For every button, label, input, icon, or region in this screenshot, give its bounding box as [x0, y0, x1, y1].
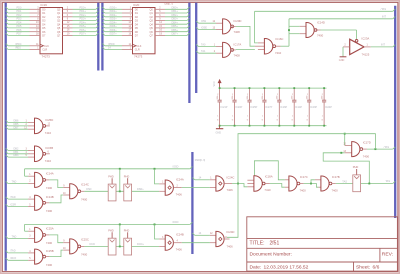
svg-text:IC25C: IC25C	[81, 238, 89, 242]
IC20 pin Q3 wire DB3+	[155, 20, 165, 22]
svg-text:IC20D: IC20D	[234, 19, 242, 23]
bus left PD bus	[5, 3, 7, 271]
svg-text:/PWC: /PWC	[15, 43, 22, 46]
gate IC17B 7400	[315, 179, 321, 181]
svg-text:1: 1	[162, 182, 164, 184]
svg-text:IC16P: IC16P	[280, 106, 287, 109]
capacitor IC14P 100n	[293, 88, 295, 100]
svg-text:7406: 7406	[227, 245, 234, 249]
wire /DCD to IC24B in1	[155, 224, 160, 239]
node cap IC25P rails	[249, 87, 251, 89]
svg-text:/RES: /RES	[15, 47, 21, 50]
IC19 CLK pin wire /PWC	[6, 44, 8, 46]
IC19 pin Q4 wire	[63, 23, 73, 25]
node TAS tap	[368, 183, 370, 185]
svg-text:7406: 7406	[176, 192, 183, 196]
svg-text:GND: GND	[216, 132, 222, 135]
svg-text:DB3+: DB3+	[172, 18, 179, 21]
svg-text:PD1: PD1	[17, 10, 22, 13]
svg-text:IC14A: IC14A	[46, 171, 54, 175]
node /OSD taps	[119, 168, 121, 170]
svg-text:TAS: TAS	[385, 180, 390, 183]
wire IC23A input from GND	[343, 46, 350, 48]
svg-text:12: 12	[212, 21, 215, 23]
svg-text:/DCD: /DCD	[172, 221, 178, 224]
svg-text:7400: 7400	[300, 189, 307, 193]
wire IC17B out TAS to bus	[332, 183, 336, 185]
IC20 pin Q6 wire DB6+	[155, 31, 165, 33]
svg-text:74273: 74273	[134, 55, 143, 59]
wire VCC rail	[220, 87, 327, 89]
node IC17D out junction	[374, 148, 376, 150]
wire TAD input row2	[6, 236, 8, 238]
svg-text:Q0: Q0	[57, 8, 61, 11]
svg-text:TAD: TAD	[12, 180, 17, 183]
capacitor IC25P 100n	[249, 88, 251, 100]
svg-text:PD3+: PD3+	[80, 18, 87, 21]
wire TAD input row1	[6, 181, 8, 183]
svg-text:/DD1+: /DD1+	[110, 10, 118, 13]
gate IC15B 7410	[6, 148, 8, 150]
svg-text:CLK: CLK	[44, 45, 49, 48]
svg-text:3: 3	[162, 237, 164, 239]
IC20 CLK pin wire /PWD	[102, 44, 104, 46]
svg-text:DB3: DB3	[14, 154, 19, 157]
svg-text:PD1+: PD1+	[80, 10, 87, 13]
svg-text:G: G	[217, 120, 219, 122]
svg-text:IC14B: IC14B	[46, 195, 54, 199]
svg-text:2: 2	[214, 51, 216, 53]
svg-text:7400: 7400	[46, 263, 53, 267]
IC20 pin D1 wire /DD1+	[102, 11, 104, 13]
node cap IC14P rails	[293, 87, 295, 89]
svg-text:7400: 7400	[46, 241, 53, 245]
node feedback join chain	[237, 183, 239, 185]
svg-text:/TAD: /TAD	[10, 250, 16, 253]
svg-text:Q7: Q7	[149, 35, 153, 38]
svg-text:CLR: CLR	[42, 49, 47, 52]
svg-text:Q5: Q5	[57, 27, 61, 30]
svg-text:TA0: TA0	[201, 43, 206, 46]
IC19 pin Q7 wire	[63, 34, 73, 36]
wire IC20D out to IC16C	[232, 25, 236, 27]
wire bus tap to IC24D in1	[192, 233, 194, 235]
node cap IC24P rails	[323, 87, 325, 89]
svg-text:2: 2	[177, 185, 179, 187]
svg-text:2: 2	[277, 94, 278, 96]
svg-text:DSR+: DSR+	[137, 188, 144, 191]
svg-text:Q3: Q3	[57, 20, 61, 23]
node /DCD taps	[119, 223, 121, 225]
svg-text:6/6: 6/6	[373, 264, 380, 270]
svg-text:2: 2	[232, 94, 233, 96]
svg-text:DB7: DB7	[14, 126, 19, 129]
node DCD to /DCD link	[119, 245, 121, 247]
svg-text:PD2+: PD2+	[80, 14, 87, 17]
svg-text:PD6: PD6	[17, 29, 22, 32]
wire IC24A out crossing bus to IC24C	[174, 187, 182, 189]
wire IC17D in2 loop from TAS	[323, 153, 369, 184]
IC19 pin Q1 wire	[63, 12, 73, 14]
svg-text:IC17D: IC17D	[363, 140, 371, 144]
svg-text:/TAD: /TAD	[10, 196, 16, 199]
wire IC16C out INT to bus	[276, 45, 281, 47]
capacitor IC20P 100n	[234, 88, 236, 100]
gate IC25C 7400	[63, 242, 69, 244]
svg-text:PD7: PD7	[17, 33, 22, 36]
node IC14D input junction	[288, 29, 290, 31]
pin header PHD row2 b	[127, 232, 129, 238]
pin header PHD TAS	[356, 169, 358, 175]
svg-text:Q4: Q4	[57, 23, 61, 26]
IC20 pin D5 wire /DD5+	[102, 26, 104, 28]
svg-text:TAS: TAS	[342, 180, 347, 183]
svg-text:TA1: TA1	[201, 50, 206, 53]
IC20 pin Q7 wire DB7+	[155, 34, 165, 36]
svg-text:DB[0..7]: DB[0..7]	[165, 2, 174, 5]
svg-text:IC24C: IC24C	[227, 176, 235, 180]
svg-text:/DD5+: /DD5+	[110, 25, 118, 28]
svg-text:Sheet:: Sheet:	[356, 264, 370, 270]
svg-text:PD3: PD3	[17, 18, 22, 21]
svg-text:IC23A: IC23A	[362, 36, 370, 40]
svg-text:Q4: Q4	[149, 23, 153, 26]
wire IC14B out to IC14C	[45, 202, 49, 204]
IC19 pin Q5 wire	[63, 27, 73, 29]
svg-text:7400: 7400	[81, 197, 88, 201]
svg-text:IC14P: IC14P	[295, 106, 302, 109]
wire /TAD input row1	[6, 197, 8, 199]
svg-text:7410: 7410	[45, 131, 52, 135]
bus PD out	[97, 3, 99, 71]
IC20 pin Q5 wire DB5+	[155, 27, 165, 29]
svg-text:DB6+: DB6+	[172, 29, 179, 32]
gate IC25B 7400	[28, 252, 34, 254]
svg-text:/DD2+: /DD2+	[110, 14, 118, 17]
svg-text:1: 1	[210, 178, 212, 180]
IC19 pin D7 wire PD7	[6, 33, 8, 35]
gate IC17C 7400	[285, 179, 289, 181]
svg-text:IC25A: IC25A	[46, 226, 54, 230]
svg-text:1: 1	[277, 116, 278, 118]
wire IC24B out crossing bus to IC24D	[174, 242, 182, 244]
svg-text:6: 6	[48, 152, 50, 154]
svg-text:IC25D: IC25D	[45, 118, 53, 122]
svg-text:DB4+: DB4+	[172, 21, 179, 24]
IC IC19 74LS273 body	[40, 8, 63, 54]
IC20 pin D0 wire /DD0+	[102, 7, 104, 9]
svg-text:7400: 7400	[363, 155, 370, 159]
svg-text:/TAS: /TAS	[384, 146, 390, 149]
svg-text:Q6: Q6	[57, 31, 61, 34]
IC IC20 74LS273 body	[133, 8, 156, 54]
node cap IC21P rails	[219, 87, 221, 89]
svg-text:IC16C: IC16C	[276, 37, 284, 41]
bus IO right	[195, 3, 197, 93]
wire IC25B out to IC25C	[45, 256, 49, 258]
svg-text:2: 2	[292, 94, 293, 96]
IC20 pin D2 wire /DD2+	[102, 15, 104, 17]
gate IC25A 7400	[28, 230, 34, 232]
svg-text:/TAS: /TAS	[381, 8, 387, 11]
IC19 pin Q3 wire	[63, 20, 73, 22]
svg-text:DB1+: DB1+	[172, 10, 179, 13]
svg-text:/DCO: /DCO	[10, 257, 16, 260]
svg-text:7400: 7400	[46, 186, 53, 190]
node cap IC23P rails	[308, 87, 310, 89]
IC20 pin Q0 wire DB0+	[155, 8, 165, 10]
svg-text:PHD: PHD	[108, 228, 114, 232]
wire /DCO input row2	[6, 258, 8, 260]
wire /CSR input row1	[6, 204, 8, 206]
wire IC14A out to IC14C	[45, 179, 49, 181]
IC19 pin Q6 wire	[63, 31, 73, 33]
supply VCC arrow	[219, 83, 221, 89]
IC20 pin Q1 wire DB1+	[155, 12, 165, 14]
wire IOW to IC20D	[196, 21, 198, 23]
svg-text:PD6+: PD6+	[80, 29, 87, 32]
svg-text:1: 1	[217, 116, 218, 118]
wire IC25A out to IC25C	[45, 234, 49, 236]
svg-text:DB2+: DB2+	[172, 14, 179, 17]
svg-text:/DD4+: /DD4+	[110, 21, 118, 24]
svg-text:DCD+: DCD+	[137, 243, 144, 246]
svg-text:IC24D: IC24D	[227, 230, 235, 234]
svg-text:IC21P: IC21P	[221, 106, 228, 109]
svg-text:1: 1	[214, 44, 216, 46]
wire DCD from IC25C to IC24B	[81, 245, 85, 247]
svg-text:G: G	[306, 120, 308, 122]
svg-text:PD7+: PD7+	[80, 33, 87, 36]
gate IC23A 74125 buffer	[350, 39, 364, 54]
svg-text:/DD3+: /DD3+	[110, 18, 118, 21]
svg-text:INT: INT	[382, 16, 387, 19]
svg-text:IC18A: IC18A	[265, 175, 273, 179]
svg-text:G: G	[247, 120, 249, 122]
IC19 pin Q0 wire	[63, 8, 73, 10]
IC20 pin D6 wire /DD6+	[102, 30, 104, 32]
svg-text:/CSR: /CSR	[10, 203, 16, 206]
svg-text:2: 2	[247, 94, 248, 96]
gate IC14A 7400	[28, 175, 34, 177]
gate IC14D 7400	[300, 25, 306, 27]
svg-text:4: 4	[177, 241, 179, 243]
wire /TAD input row2	[6, 251, 8, 253]
svg-text:7408: 7408	[234, 54, 241, 58]
svg-text:1: 1	[367, 45, 369, 47]
svg-text:IC20: IC20	[133, 3, 140, 7]
svg-text:14: 14	[199, 232, 202, 235]
svg-text:12.03.2019 17.56.52: 12.03.2019 17.56.52	[264, 264, 309, 270]
wire bypass IC18A in1 to IC17C in1	[254, 161, 285, 180]
IC20 pin D7 wire /DD7+	[102, 33, 104, 35]
svg-text:Q1: Q1	[57, 12, 61, 15]
svg-text:PHD: PHD	[353, 165, 359, 169]
svg-text:PD5+: PD5+	[80, 25, 87, 28]
svg-text:7406: 7406	[227, 188, 234, 192]
wire IC23A out INT to bus	[364, 46, 371, 48]
svg-text:PD0+: PD0+	[80, 6, 87, 9]
wire /TAS from bus to IC16C	[393, 9, 395, 11]
IC19 pin D3 wire PD3	[6, 18, 8, 20]
IC20 pin Q4 wire DB4+	[155, 23, 165, 25]
svg-text:PD5: PD5	[17, 25, 22, 28]
bus DD in	[101, 3, 103, 71]
svg-text:1: 1	[292, 116, 293, 118]
svg-text:/DD6+: /DD6+	[110, 29, 118, 32]
svg-text:/DD7+: /DD7+	[110, 33, 118, 36]
svg-text:PHD: PHD	[108, 174, 114, 178]
svg-text:2: 2	[322, 94, 323, 96]
svg-text:IC15B: IC15B	[45, 146, 53, 150]
svg-text:IC24P: IC24P	[325, 106, 332, 109]
IC20 pin D3 wire /DD3+	[102, 18, 104, 20]
svg-text:7400: 7400	[46, 209, 53, 213]
IC20 pin D4 wire /DD4+	[102, 22, 104, 24]
svg-text:1: 1	[232, 116, 233, 118]
svg-text:Q5: Q5	[149, 27, 153, 30]
svg-text:Date:: Date:	[250, 264, 262, 270]
gate IC24B 7406	[159, 238, 165, 240]
wire IC17D in1 from feedback line	[344, 134, 346, 146]
capacitor IC21P 100n	[219, 88, 221, 100]
node cap IC20P rails	[234, 87, 236, 89]
svg-text:TAD: TAD	[12, 235, 17, 238]
IC20 CLR pin wire 14	[102, 47, 104, 49]
wire IOSE to IC20D	[196, 27, 198, 29]
svg-text:DCD: DCD	[90, 243, 96, 246]
svg-text:PHD: PHD	[124, 228, 130, 232]
svg-text:PD2: PD2	[17, 14, 22, 17]
IC19 pin D6 wire PD6	[6, 30, 8, 32]
svg-text:1: 1	[322, 116, 323, 118]
gate IC17D 7400	[345, 144, 352, 146]
svg-text:PD4: PD4	[17, 21, 22, 24]
svg-text:CLR: CLR	[135, 49, 140, 52]
IC19 pin D0 wire PD0	[6, 7, 8, 9]
svg-text:IC24B: IC24B	[176, 232, 184, 236]
ground GND at IC23A	[340, 56, 347, 58]
node cap IC17P rails	[263, 87, 265, 89]
svg-text:VCC: VCC	[213, 81, 216, 86]
svg-text:14: 14	[199, 177, 202, 180]
IC19 pin D4 wire PD4	[6, 22, 8, 24]
wire /DCD feedback line	[25, 223, 190, 225]
svg-text:7410: 7410	[275, 51, 282, 55]
svg-text:IC14D: IC14D	[317, 20, 325, 24]
svg-text:IC24A: IC24A	[176, 177, 184, 181]
IC19 pin D5 wire PD5	[6, 26, 8, 28]
svg-text:Q0: Q0	[149, 8, 153, 11]
svg-text:IC17B: IC17B	[332, 175, 340, 179]
wire IC18A out to IC17C	[265, 183, 270, 185]
svg-text:G: G	[262, 120, 264, 122]
svg-text:7400: 7400	[317, 34, 324, 38]
wire IC24D out stub	[224, 238, 229, 240]
svg-text:14: 14	[108, 47, 111, 50]
capacitor IC24P 100n	[323, 88, 325, 100]
bus right edge	[394, 6, 396, 218]
gate IC24A 7406	[159, 183, 165, 185]
svg-text:2: 2	[217, 94, 218, 96]
IC19 pin D1 wire PD1	[6, 11, 8, 13]
svg-text:IOSE: IOSE	[201, 26, 207, 29]
svg-text:2: 2	[307, 94, 308, 96]
svg-text:1: 1	[247, 116, 248, 118]
svg-text:PD0: PD0	[17, 6, 22, 9]
svg-text:Q1: Q1	[149, 12, 153, 15]
gate IC24C 7406	[210, 179, 216, 181]
svg-text:12: 12	[210, 233, 213, 235]
svg-text:1: 1	[307, 116, 308, 118]
svg-text:13: 13	[212, 27, 215, 29]
svg-text:IC17A: IC17A	[234, 42, 242, 46]
svg-text:7400: 7400	[332, 189, 339, 193]
svg-text:PD4+: PD4+	[80, 21, 87, 24]
pin header PHD row1 b	[127, 178, 129, 184]
svg-text:OSD: OSD	[86, 188, 92, 191]
svg-text:74273: 74273	[42, 55, 51, 59]
gate IC20D 7408	[223, 19, 231, 34]
IC19 pin D2 wire PD2	[6, 15, 8, 17]
ground GND below capacitor rail	[219, 126, 221, 129]
svg-text:IOW: IOW	[201, 20, 207, 23]
svg-text:/PWD: /PWD	[108, 43, 115, 46]
gate IC24D 7406	[210, 234, 216, 236]
svg-text:7406: 7406	[176, 248, 183, 252]
svg-text:IC25B: IC25B	[46, 249, 54, 253]
wire /TAS from IC17D to bus	[363, 148, 367, 150]
svg-text:IC14C: IC14C	[81, 183, 89, 187]
svg-text:DB0+: DB0+	[172, 6, 179, 9]
wire /OSD feedback line	[25, 168, 190, 170]
node cap IC16P rails	[278, 87, 280, 89]
svg-text:INT: INT	[381, 44, 386, 47]
svg-text:12: 12	[48, 124, 51, 126]
svg-text:IC20P: IC20P	[235, 106, 242, 109]
svg-text:/DD0+: /DD0+	[110, 6, 118, 9]
capacitor IC16P 100n	[278, 88, 280, 100]
wire GND rail	[220, 125, 327, 127]
gate IC16C 7410	[258, 42, 265, 44]
IC19 pin Q2 wire	[63, 16, 73, 18]
capacitor IC23P 100n	[308, 88, 310, 100]
svg-text:G: G	[321, 120, 323, 122]
svg-text:Q6: Q6	[149, 31, 153, 34]
svg-text:IC17P: IC17P	[265, 106, 272, 109]
svg-text:7408: 7408	[234, 30, 241, 34]
svg-text:IC19: IC19	[41, 3, 48, 7]
svg-text:/OSD: /OSD	[172, 166, 178, 169]
svg-text:IC23P: IC23P	[310, 106, 317, 109]
title block row lines	[247, 238, 398, 240]
svg-text:2: 2	[29, 181, 31, 183]
gate IC17A 7408	[223, 42, 231, 57]
svg-text:REV:: REV:	[382, 251, 393, 257]
wire IC24C out to IC18A	[224, 183, 232, 185]
svg-text:2f51: 2f51	[270, 241, 280, 247]
gate IC14B 7400	[28, 198, 34, 200]
svg-text:5: 5	[29, 204, 31, 206]
svg-text:DSR[0..3]: DSR[0..3]	[195, 159, 206, 162]
IC19 CLR pin wire /RES	[6, 47, 8, 49]
svg-text:7410: 7410	[264, 188, 271, 192]
wire IC14D out to IC23A enable	[316, 29, 321, 31]
title block outline	[247, 217, 398, 271]
wire IC17C out to IC17B	[300, 183, 304, 185]
svg-text:7410: 7410	[45, 159, 52, 163]
gate IC14C 7400	[63, 187, 69, 189]
